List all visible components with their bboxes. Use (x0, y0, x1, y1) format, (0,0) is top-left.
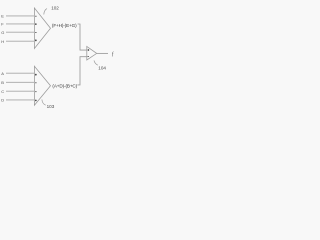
pin sign - (bottom input) (88, 56, 90, 58)
wire output of U104 (97, 52, 108, 54)
svg-text:C: C (1, 89, 4, 94)
svg-text:(F+H)-(E+G): (F+H)-(E+G) (52, 23, 77, 28)
wire from top amp output to comparator (78, 24, 87, 50)
leader line to 102 (44, 9, 47, 15)
leader line to 104 (94, 60, 98, 65)
pin sign + (top input) (88, 49, 90, 51)
svg-text:104: 104 (98, 66, 106, 71)
svg-text:103: 103 (47, 104, 55, 109)
op-amp U104 (difference amp, right) (87, 46, 97, 60)
svg-text:E: E (1, 14, 4, 19)
pin sign + for D (35, 100, 37, 102)
wire H input (6, 40, 34, 42)
background (0, 0, 122, 120)
wire E input (6, 15, 34, 17)
op-amp U102 (sum amp, top) (34, 8, 50, 49)
op-amp U103 (sum amp, bottom) (34, 66, 50, 105)
svg-text:(A+D)-(B+C): (A+D)-(B+C) (52, 83, 77, 88)
svg-text:A: A (1, 71, 4, 76)
wire G input (6, 31, 34, 33)
pin sign + for H (35, 39, 37, 41)
svg-text:102: 102 (51, 5, 59, 10)
pin sign + for F (35, 23, 37, 25)
pin sign - for B (35, 82, 37, 84)
svg-text:D: D (1, 98, 4, 103)
svg-text:B: B (1, 80, 4, 85)
pin sign - for E (35, 15, 37, 17)
wire D input (6, 99, 34, 101)
pin sign + for A (35, 74, 37, 76)
wire A input (6, 72, 34, 74)
svg-text:H: H (1, 39, 4, 44)
pin sign - for G (35, 32, 37, 34)
svg-text:G: G (1, 30, 4, 35)
wire B input (6, 81, 34, 83)
leader line to 103 (42, 100, 46, 106)
wire C input (6, 90, 34, 92)
wire from bottom amp output to comparator (77, 57, 86, 85)
pin sign - for C (35, 91, 37, 93)
wire F input (6, 23, 34, 25)
